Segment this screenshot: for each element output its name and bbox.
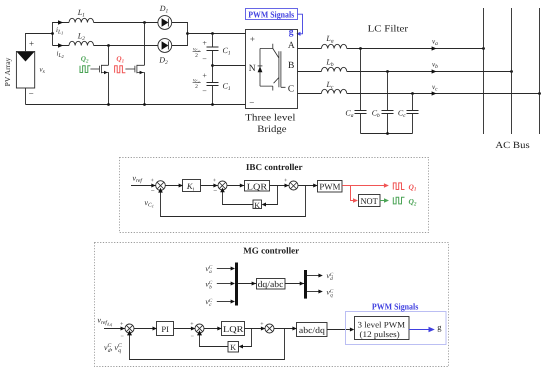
wire L1 branch left — [53, 22, 70, 24]
gain block K (MG) — [228, 342, 239, 353]
svg-text:IBC controller: IBC controller — [246, 162, 303, 172]
current arrow vb — [432, 69, 437, 73]
node Ca tap — [359, 47, 362, 50]
node phase A bus junction — [482, 47, 485, 50]
wire Q2 drain up — [108, 46, 110, 66]
wire cap string middle — [212, 51, 214, 83]
wire vcC to mux — [217, 301, 232, 303]
svg-text:(12 pulses): (12 pulses) — [360, 329, 400, 339]
wire capacitor neutral rail — [361, 133, 413, 135]
svg-text:3 level PWM: 3 level PWM — [358, 319, 406, 329]
svg-text:A: A — [288, 41, 295, 51]
gain block Ki — [183, 180, 201, 193]
svg-text:−: − — [151, 187, 155, 195]
mux bar input — [235, 263, 238, 306]
svg-text:−: − — [249, 97, 254, 107]
wire PV top to split — [26, 34, 53, 52]
wire K to S2 feedback — [223, 191, 253, 204]
node Q2 source junction — [107, 103, 110, 106]
svg-text:K: K — [230, 343, 236, 352]
wire K to M2 feedback — [200, 334, 229, 346]
node diode junction — [186, 32, 189, 35]
Q1 waveform (red) — [393, 183, 404, 190]
label vref — [133, 173, 144, 184]
wire DC bus to bridge — [188, 33, 246, 35]
Q1 label — [116, 55, 124, 64]
label vref dq — [98, 316, 113, 327]
svg-text:−: − — [202, 87, 207, 96]
summing junction S1 — [156, 181, 166, 191]
wire cap string top — [212, 34, 214, 48]
node phase B bus junction — [510, 70, 513, 73]
svg-text:MG controller: MG controller — [243, 246, 299, 256]
wire PV bottom to ground rail — [25, 88, 27, 105]
wire Cc tap down — [412, 94, 414, 111]
C1 bottom voltage fraction vC1/2 — [193, 77, 201, 90]
wire S3 to PWM — [298, 185, 318, 187]
PV voltage label vs — [40, 66, 45, 76]
node Cc tap — [411, 92, 414, 95]
wire N to bridge — [213, 65, 246, 67]
svg-text:2: 2 — [195, 84, 198, 90]
inductor Lc — [321, 89, 346, 93]
PWM signals light blue frame — [346, 312, 447, 345]
svg-text:PI: PI — [161, 324, 169, 334]
IBC controller dashed frame — [120, 158, 429, 233]
wire Q1 gate — [125, 68, 134, 70]
AC bus bar 3 — [539, 8, 541, 134]
wire vbC to mux — [217, 283, 232, 285]
three level bridge box — [246, 30, 298, 109]
block NOT — [359, 195, 381, 207]
node Q1 source junction — [143, 103, 146, 106]
label vdC vqC feedback — [104, 343, 122, 354]
AC bus bar 2 — [511, 8, 513, 134]
summing junction M3 — [265, 324, 274, 333]
ground rail — [26, 104, 246, 106]
wire cap string bottom — [212, 86, 214, 105]
wire S2 to LQR — [227, 185, 244, 187]
wire Q1 source down — [144, 72, 146, 104]
block PI — [157, 322, 174, 336]
wire Ca tap down — [360, 49, 362, 111]
block PWM — [318, 181, 343, 193]
wire M1 to PI — [134, 328, 157, 330]
wire vdC out — [307, 275, 319, 277]
node Q2 drain junction — [107, 44, 110, 47]
PV Array symbol — [3, 52, 35, 89]
node Q1 drain junction — [143, 21, 146, 24]
label vaC — [206, 264, 213, 275]
wire mux to dq/abc — [238, 283, 256, 285]
wire LQR to M3 — [245, 328, 266, 330]
transistor Q2 — [99, 65, 108, 74]
wire Ki to S2 — [201, 185, 218, 187]
capacitor C1 top — [207, 46, 231, 57]
svg-text:g: g — [437, 322, 442, 332]
node Cb tap — [386, 70, 389, 73]
wire PWM signals to g (blue) — [298, 14, 303, 34]
node DC link top junction — [211, 32, 214, 35]
capacitor Cb — [372, 109, 394, 120]
wire Q2 source down — [108, 72, 110, 104]
block LQR (MG) — [222, 322, 245, 336]
block abc/dq — [297, 323, 328, 337]
svg-text:2: 2 — [195, 53, 198, 59]
wire M2 to LQR — [204, 328, 222, 330]
svg-text:N: N — [249, 64, 256, 74]
wire LQR branch down to K — [266, 186, 278, 205]
capacitor Cc — [398, 109, 419, 120]
svg-text:B: B — [288, 61, 294, 71]
wire split vertical — [52, 22, 54, 46]
wire vaC to mux — [217, 268, 232, 270]
wire phase B — [347, 71, 512, 73]
wire L2 branch left — [53, 45, 70, 47]
wire bridge B out — [298, 71, 322, 73]
svg-text:K: K — [254, 201, 260, 210]
wire D1 to DC bus — [172, 23, 188, 34]
wire bridge A out — [298, 48, 322, 50]
wire M3 to abc/dq — [274, 328, 297, 330]
wire Ca to rail — [360, 114, 362, 134]
wire M3 output branch down feedback — [130, 329, 285, 360]
label vcC — [206, 297, 213, 308]
svg-text:abc/dq: abc/dq — [299, 325, 326, 335]
wire vref input — [104, 328, 125, 330]
bridge internal diode — [258, 66, 263, 72]
capacitor Ca — [345, 109, 366, 120]
Q2 label — [81, 55, 89, 64]
inductor L1 — [69, 18, 94, 22]
current arrow iL2 — [58, 43, 63, 47]
label vqC — [327, 288, 334, 299]
wire Q1 drain up — [144, 23, 146, 66]
node DC link mid junction — [211, 64, 214, 67]
wire vref input — [131, 185, 156, 187]
svg-text:+: + — [202, 71, 207, 80]
summing junction S3 — [289, 181, 298, 190]
Q2 gate waveform (green) — [80, 66, 90, 73]
wire phase A — [347, 48, 484, 50]
svg-text:+: + — [29, 38, 34, 48]
gain block K — [253, 200, 262, 210]
node ground cap junction — [211, 103, 214, 106]
diode D2 — [158, 39, 172, 53]
wire L2 to D2 — [94, 45, 158, 47]
wire bridge C out — [298, 93, 322, 95]
svg-text:dq/abc: dq/abc — [258, 279, 284, 289]
block LQR — [245, 181, 270, 192]
summing junction S2 — [218, 181, 227, 190]
node neutral rail junction — [386, 132, 389, 135]
label Q1 red — [409, 182, 417, 192]
AC bus bar 1 — [483, 8, 485, 134]
label vC1 — [145, 198, 154, 209]
wire L1 to D1 — [94, 22, 158, 24]
wire dq/abc to mux out — [285, 283, 304, 285]
svg-text:PWM Signals: PWM Signals — [248, 10, 294, 20]
current arrow va — [432, 46, 437, 50]
svg-text:NOT: NOT — [360, 196, 378, 206]
svg-text:Bridge: Bridge — [257, 124, 287, 135]
node phase C bus junction — [538, 92, 541, 95]
svg-text:PWM Signals: PWM Signals — [372, 302, 419, 312]
current arrow vc — [432, 91, 437, 95]
wire red branch to NOT — [351, 186, 354, 201]
capacitor C1 bottom — [207, 81, 231, 92]
diode D1 — [158, 16, 172, 30]
wire Q2 gate — [90, 68, 99, 70]
C1 top voltage fraction vC1/2 — [193, 46, 201, 59]
wire Cc to rail — [412, 114, 414, 134]
svg-text:+: + — [250, 34, 255, 44]
wire S1 to Ki — [165, 185, 183, 187]
Q2 waveform (green) — [393, 197, 404, 204]
inductor Lb — [321, 67, 346, 71]
wire Cb to rail — [387, 114, 389, 134]
svg-text:LQR: LQR — [223, 324, 244, 334]
node split junction — [51, 32, 54, 35]
MG controller dashed frame — [95, 243, 449, 367]
wire vqC out — [307, 291, 319, 293]
wire LQR branch down to K (MG) — [243, 329, 252, 347]
svg-text:g: g — [289, 28, 294, 38]
wire abc/dq to 3 level PWM — [327, 329, 350, 331]
label vdC — [327, 271, 334, 282]
wire S3 output branch down feedback — [161, 186, 306, 217]
inductor L2 — [69, 41, 94, 45]
bridge internal IGBT leg — [260, 44, 286, 91]
mux bar output — [304, 270, 307, 299]
svg-text:Three level: Three level — [245, 113, 296, 124]
svg-text:PV Array: PV Array — [3, 57, 12, 86]
wire PI to M2 — [174, 328, 196, 330]
svg-text:AC Bus: AC Bus — [495, 141, 530, 151]
wire PWM to Q1 (red) — [342, 185, 385, 187]
label vbC — [206, 279, 213, 290]
svg-text:C: C — [288, 85, 294, 95]
svg-text:LC Filter: LC Filter — [368, 24, 409, 34]
svg-text:−: − — [29, 88, 34, 98]
svg-text:−: − — [202, 55, 207, 64]
svg-text:+: + — [202, 39, 207, 48]
wire phase C — [347, 93, 540, 95]
svg-text:LQR: LQR — [247, 181, 268, 191]
summing junction M2 — [195, 324, 204, 333]
block dq/abc — [257, 279, 286, 290]
inductor La — [321, 44, 346, 48]
Q1 gate waveform (red) — [115, 66, 126, 73]
wire 3 level PWM to g (blue) — [409, 329, 430, 331]
current arrow iL1 — [58, 20, 63, 24]
wire LQR to S3 — [270, 185, 289, 187]
PWM Signals box (top) — [246, 9, 298, 20]
label Q2 green — [409, 197, 417, 207]
wire Cb tap down — [387, 72, 389, 111]
wire NOT to Q2 (green) — [380, 200, 385, 202]
wire D2 to DC bus — [172, 34, 188, 46]
svg-text:−: − — [213, 187, 217, 195]
summing junction M1 — [125, 324, 134, 333]
transistor Q1 — [135, 65, 145, 74]
block 3 level PWM — [355, 317, 410, 340]
svg-text:PWM: PWM — [319, 181, 340, 191]
